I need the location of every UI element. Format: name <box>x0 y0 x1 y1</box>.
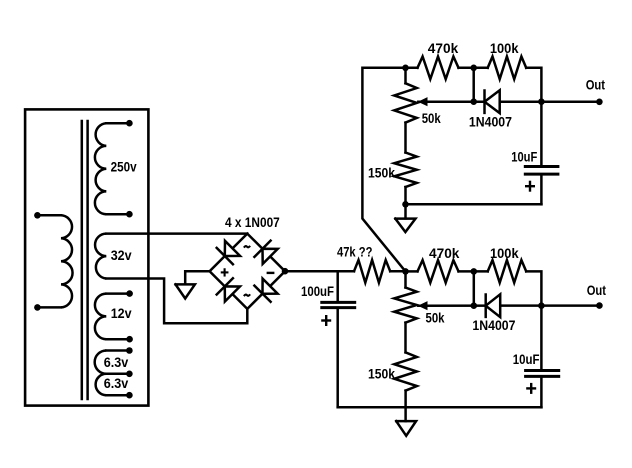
svg-text:Out: Out <box>587 283 607 298</box>
label 100uF plus <box>322 316 330 325</box>
svg-text:250v: 250v <box>111 159 137 174</box>
resistor 100k top <box>488 57 527 80</box>
wire bottom diode row <box>418 304 599 307</box>
label 150k bottom <box>368 367 395 382</box>
node bridge DC minus <box>282 268 289 275</box>
label 100k bottom <box>490 246 519 261</box>
wire bottom ground stub <box>404 407 407 421</box>
label Out top <box>586 77 606 92</box>
bridge AC tilde bottom <box>244 294 250 296</box>
label 470k top <box>428 41 459 56</box>
wire 6.3v lower bottom lead <box>106 394 129 397</box>
capacitor 100uF <box>322 302 355 307</box>
wire top 150k to ground node <box>404 187 407 204</box>
label 250v <box>111 159 137 174</box>
bridge plus mark <box>222 269 228 275</box>
wire primary top lead <box>37 214 61 217</box>
label 10uF bottom plus <box>527 384 535 393</box>
primary winding coil <box>61 215 73 307</box>
label 10uF bottom <box>513 352 540 367</box>
bridge diode D3 bottom-left <box>217 278 240 301</box>
wire top bottom rail <box>406 203 542 206</box>
secondary 250v coil <box>95 123 106 214</box>
svg-text:6.3v: 6.3v <box>104 376 129 391</box>
wire 47k to node <box>390 270 405 273</box>
bridge diamond <box>210 234 285 309</box>
wire top circuit left vertical <box>362 68 417 272</box>
250v top terminal <box>126 120 133 127</box>
node top ground junction <box>402 201 409 208</box>
label 50k bottom <box>426 311 445 326</box>
svg-text:10uF: 10uF <box>513 352 540 367</box>
wire top pot to 150k <box>404 123 407 153</box>
label 4 x 1N007 <box>225 215 280 230</box>
primary top terminal <box>34 212 41 219</box>
svg-text:470k: 470k <box>429 246 460 261</box>
svg-text:100k: 100k <box>490 41 519 56</box>
capacitor 10uF top <box>525 167 558 175</box>
label 470k bottom <box>429 246 460 261</box>
node bottom out junction <box>538 302 545 309</box>
secondary 12v coil <box>95 294 106 340</box>
12v bottom terminal <box>126 336 133 343</box>
label 6.3v upper <box>104 355 129 370</box>
wire 100k top to right vertical <box>526 68 541 102</box>
diode 1N4007 top <box>485 90 500 113</box>
wire top junction to 100k <box>459 67 488 70</box>
bridge minus mark <box>268 272 273 274</box>
bridge diode D2 top-right <box>254 241 277 264</box>
6.3v shared terminal <box>126 371 133 378</box>
svg-text:12v: 12v <box>111 306 132 321</box>
wire 100k bottom to right vertical <box>526 271 541 305</box>
bridge diode D1 top-left <box>217 241 240 264</box>
wire 6.3v shared lead <box>106 373 129 376</box>
label 10uF top <box>511 149 537 164</box>
wire bottom 150k to rail <box>404 391 407 408</box>
node bottom circuit left junction <box>402 268 409 275</box>
wire 12v top lead <box>106 292 129 295</box>
wire top ground stub <box>404 204 407 218</box>
node top diode left junction <box>470 98 477 105</box>
pot wiper arrow top <box>418 97 428 106</box>
transformer core line left <box>81 121 84 399</box>
node top circuit left junction <box>402 65 409 72</box>
label 12v <box>111 306 132 321</box>
wire 250v bottom lead <box>106 213 129 216</box>
wire bridge plus to ground <box>185 271 209 284</box>
pot wiper arrow bottom <box>418 301 428 310</box>
wire 12v bottom lead <box>106 338 129 341</box>
Out terminal top <box>596 99 603 106</box>
svg-text:47k ??: 47k ?? <box>337 245 372 260</box>
Out terminal bottom <box>596 302 603 309</box>
svg-text:150k: 150k <box>368 367 395 382</box>
ground bottom circuit <box>396 421 416 436</box>
label 100uF <box>301 284 334 299</box>
resistor 150k bottom <box>394 352 417 390</box>
node bottom 470k-100k junction <box>471 268 478 275</box>
resistor 470k bottom <box>418 260 459 283</box>
svg-text:Out: Out <box>586 77 606 92</box>
secondary 6.3v lower coil <box>96 374 107 395</box>
ground bridge <box>176 284 195 298</box>
secondary 32v coil <box>95 234 106 279</box>
wire primary bottom lead <box>37 306 61 309</box>
svg-text:4 x 1N007: 4 x 1N007 <box>225 215 280 230</box>
resistor 47k <box>354 260 390 283</box>
wire bottom feedback vertical <box>473 271 476 305</box>
wire bottom junction to 100k <box>459 270 488 273</box>
wire 32v top tap to bridge AC top <box>106 232 247 235</box>
node bottom diode left junction <box>471 302 478 309</box>
svg-text:6.3v: 6.3v <box>104 355 129 370</box>
resistor 100k bottom <box>488 260 527 283</box>
potentiometer 50k bottom <box>394 271 417 322</box>
label 47k ?? <box>337 245 372 260</box>
label Out bottom <box>587 283 607 298</box>
transformer core line right <box>86 121 89 399</box>
wire top cap vertical upper <box>540 102 543 165</box>
label 1N4007 top <box>469 114 512 129</box>
node top out junction <box>538 98 545 105</box>
label 150k top <box>368 166 395 181</box>
svg-text:100uF: 100uF <box>301 284 334 299</box>
250v bottom terminal <box>126 211 133 218</box>
12v top terminal <box>126 290 133 297</box>
svg-text:470k: 470k <box>428 41 459 56</box>
wire 250v top lead <box>106 122 129 125</box>
label 100k top <box>490 41 519 56</box>
wire bottom junction to 470k <box>406 270 418 273</box>
wire 100uF to bottom rail <box>336 309 339 407</box>
wire top cap vertical lower <box>540 176 543 205</box>
secondary 6.3v upper coil <box>95 351 107 374</box>
label 32v <box>111 248 132 263</box>
resistor 470k top <box>418 57 459 80</box>
transformer T1 outline box <box>25 109 148 405</box>
svg-text:1N4007: 1N4007 <box>469 114 512 129</box>
wire bottom rail <box>338 406 542 409</box>
potentiometer 50k top <box>394 68 417 123</box>
wire top feedback vertical <box>472 68 475 102</box>
node top 470k-100k junction <box>470 65 477 72</box>
wire bottom pot to 150k <box>404 323 407 353</box>
bridge AC tilde top <box>244 246 250 248</box>
6.3v lower bottom terminal <box>126 392 133 399</box>
svg-text:50k: 50k <box>422 111 441 126</box>
label 6.3v lower <box>104 376 129 391</box>
svg-text:1N4007: 1N4007 <box>472 318 515 333</box>
resistor 150k top <box>394 153 417 188</box>
svg-text:50k: 50k <box>426 311 445 326</box>
primary bottom terminal <box>34 304 41 311</box>
wire 32v bottom tap to bridge AC bottom <box>106 279 247 324</box>
svg-text:10uF: 10uF <box>511 149 537 164</box>
label 1N4007 bottom <box>472 318 515 333</box>
wire 6.3v upper top lead <box>106 349 129 352</box>
label 50k top <box>422 111 441 126</box>
wire rail tap to 100uF <box>336 271 339 301</box>
svg-text:32v: 32v <box>111 248 132 263</box>
diode 1N4007 bottom <box>486 294 501 317</box>
ground top circuit <box>395 219 415 232</box>
wire top diode row <box>418 100 599 103</box>
svg-text:100k: 100k <box>490 246 519 261</box>
svg-text:150k: 150k <box>368 166 395 181</box>
wire bridge to 47k <box>285 270 354 273</box>
wire bottom cap vertical lower <box>540 378 543 407</box>
6.3v upper top terminal <box>126 347 133 354</box>
wire bottom cap vertical upper <box>540 306 543 369</box>
bridge diode D4 bottom-right <box>254 279 277 302</box>
label 10uF top plus <box>526 182 534 191</box>
capacitor 10uF bottom <box>526 371 559 377</box>
